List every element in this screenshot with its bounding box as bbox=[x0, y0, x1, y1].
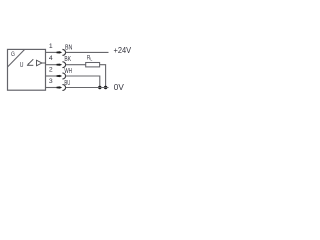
svg-text:U: U bbox=[20, 60, 24, 69]
wire RL to 0V rail bbox=[100, 65, 106, 88]
svg-text:L: L bbox=[90, 57, 92, 63]
pin 4 connector socket bbox=[62, 62, 65, 68]
pin 1 connector arrow bbox=[57, 51, 63, 53]
svg-text:G: G bbox=[11, 51, 15, 58]
wire BN bbox=[66, 51, 109, 53]
svg-text:1: 1 bbox=[49, 43, 53, 50]
svg-text:BU: BU bbox=[64, 78, 70, 87]
wire BU 0V rail bbox=[66, 87, 109, 89]
pin 3 connector arrow bbox=[57, 86, 63, 88]
pin 1 connector socket bbox=[62, 49, 65, 55]
svg-text:BK: BK bbox=[64, 54, 71, 63]
svg-text:3: 3 bbox=[49, 78, 53, 85]
pin 4 wire bbox=[46, 64, 57, 66]
pin 3 wire bbox=[46, 87, 57, 89]
svg-text:4: 4 bbox=[49, 55, 53, 62]
pin 3 connector socket bbox=[62, 85, 65, 91]
pin 2 connector arrow bbox=[57, 75, 63, 77]
wire BK bbox=[66, 64, 86, 66]
sensor diagonal line bbox=[8, 49, 25, 67]
sensor body U1 bbox=[8, 49, 46, 90]
junction dot RL/0V bbox=[104, 86, 107, 89]
wire WH bbox=[66, 76, 100, 88]
svg-text:0V: 0V bbox=[114, 83, 125, 92]
svg-text:WH: WH bbox=[64, 66, 72, 75]
junction dot WH/0V bbox=[98, 86, 101, 89]
pin 4 connector arrow bbox=[57, 64, 63, 66]
pin 2 connector socket bbox=[62, 73, 65, 79]
amplifier triangle bbox=[37, 60, 42, 66]
voltage arrow symbol bbox=[27, 59, 33, 65]
resistor RL bbox=[86, 63, 100, 67]
pin 2 wire bbox=[46, 75, 57, 77]
svg-text:2: 2 bbox=[49, 66, 53, 73]
svg-text:+24V: +24V bbox=[114, 46, 132, 55]
pin 1 wire bbox=[46, 51, 57, 53]
amplifier output wire bbox=[42, 62, 46, 64]
svg-text:BN: BN bbox=[65, 43, 72, 52]
